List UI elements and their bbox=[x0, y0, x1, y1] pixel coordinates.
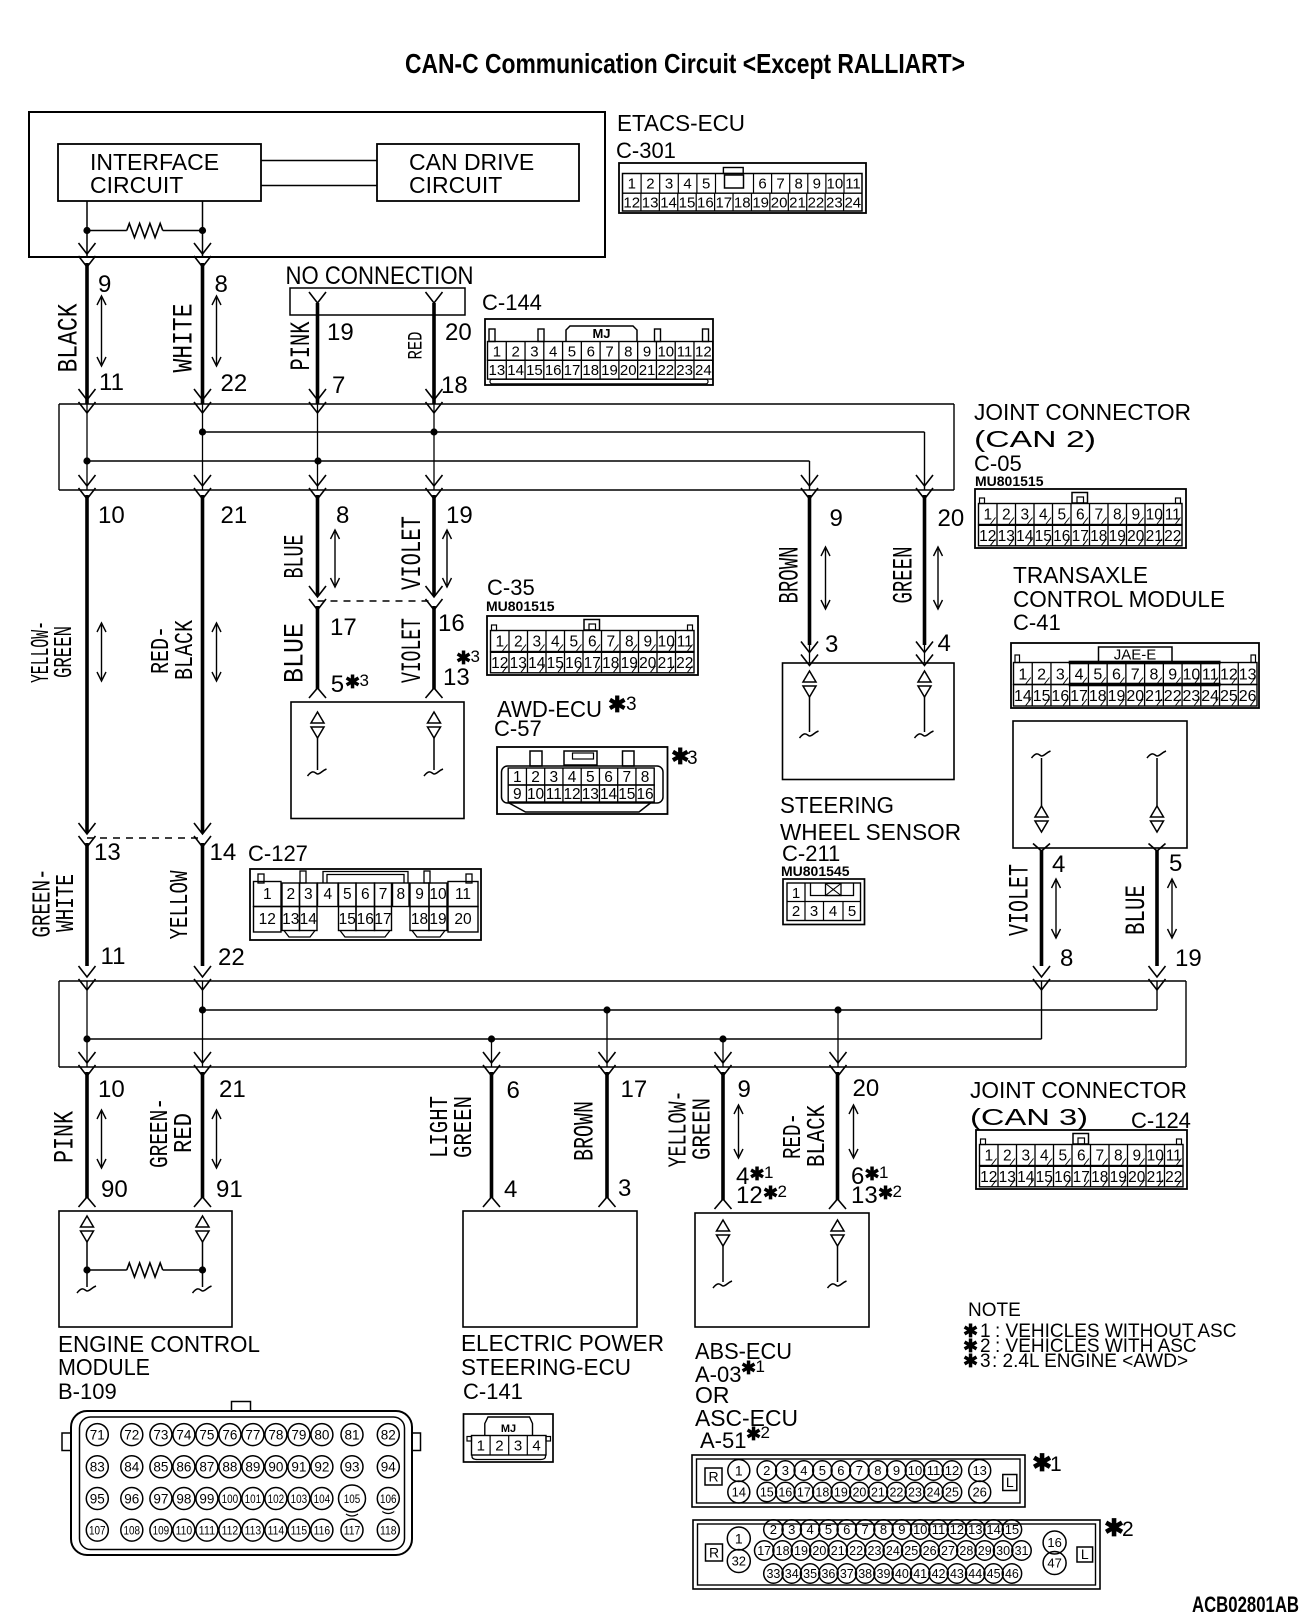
svg-text:3: 3 bbox=[810, 903, 818, 920]
svg-text:41: 41 bbox=[913, 1567, 927, 1581]
svg-text:17: 17 bbox=[374, 911, 391, 928]
svg-text:5: 5 bbox=[848, 903, 856, 920]
svg-text:C-35: C-35 bbox=[487, 575, 535, 600]
svg-text:7: 7 bbox=[623, 769, 632, 786]
svg-text:4: 4 bbox=[549, 343, 557, 360]
svg-text:14: 14 bbox=[507, 362, 524, 379]
svg-text:23: 23 bbox=[1183, 688, 1201, 705]
svg-text:12: 12 bbox=[563, 786, 580, 803]
svg-text:4: 4 bbox=[532, 1438, 540, 1455]
svg-text:92: 92 bbox=[314, 1460, 329, 1475]
svg-text:1: 1 bbox=[984, 1148, 993, 1165]
svg-text:22: 22 bbox=[808, 195, 825, 212]
svg-text:3: 3 bbox=[665, 176, 673, 193]
svg-text:6: 6 bbox=[1077, 1148, 1086, 1165]
svg-text:81: 81 bbox=[344, 1427, 359, 1442]
svg-text:25: 25 bbox=[1220, 688, 1238, 705]
svg-text:YELLOW: YELLOW bbox=[165, 870, 195, 939]
svg-text:14: 14 bbox=[1014, 688, 1032, 705]
svg-text:RED: RED bbox=[169, 1113, 199, 1153]
svg-text:12: 12 bbox=[623, 195, 640, 212]
svg-text:23: 23 bbox=[676, 362, 693, 379]
svg-text:104: 104 bbox=[314, 1492, 331, 1506]
svg-text:8: 8 bbox=[795, 176, 803, 193]
svg-text:73: 73 bbox=[153, 1427, 168, 1442]
svg-text:18: 18 bbox=[602, 655, 619, 672]
svg-text:18: 18 bbox=[815, 1486, 829, 1500]
svg-text:GREEN: GREEN bbox=[890, 547, 921, 604]
svg-text:1: 1 bbox=[263, 886, 272, 903]
svg-text:17: 17 bbox=[715, 195, 732, 212]
svg-text:WHITE: WHITE bbox=[170, 304, 201, 373]
svg-text:13: 13 bbox=[489, 362, 506, 379]
svg-text:25: 25 bbox=[904, 1544, 918, 1558]
svg-text:17: 17 bbox=[584, 655, 601, 672]
svg-text:10: 10 bbox=[913, 1522, 927, 1537]
svg-text:3: 3 bbox=[788, 1522, 795, 1537]
svg-text:20: 20 bbox=[445, 319, 472, 346]
svg-text:13: 13 bbox=[282, 911, 299, 928]
svg-text:1: 1 bbox=[477, 1438, 485, 1455]
svg-text:17: 17 bbox=[1073, 1169, 1090, 1186]
svg-text:20: 20 bbox=[639, 655, 657, 672]
svg-text:9: 9 bbox=[1132, 1148, 1141, 1165]
svg-text:14: 14 bbox=[300, 911, 318, 928]
svg-text:12: 12 bbox=[259, 911, 276, 928]
svg-text:BLUE: BLUE bbox=[281, 623, 312, 683]
svg-text:83: 83 bbox=[90, 1460, 105, 1475]
svg-text:15: 15 bbox=[1033, 688, 1051, 705]
svg-text:19: 19 bbox=[327, 319, 354, 346]
svg-text:76: 76 bbox=[222, 1427, 237, 1442]
svg-text:5: 5 bbox=[331, 671, 344, 698]
svg-text:STEERING-ECU: STEERING-ECU bbox=[461, 1354, 631, 1380]
svg-text:2: 2 bbox=[511, 343, 519, 360]
svg-text:115: 115 bbox=[291, 1523, 308, 1537]
svg-text:JOINT CONNECTOR: JOINT CONNECTOR bbox=[970, 1077, 1187, 1103]
svg-text:46: 46 bbox=[1005, 1567, 1019, 1581]
svg-text:5: 5 bbox=[1169, 850, 1182, 877]
svg-text:86: 86 bbox=[176, 1460, 191, 1475]
svg-text:19: 19 bbox=[752, 195, 769, 212]
svg-text:5: 5 bbox=[1093, 666, 1102, 683]
svg-text:11: 11 bbox=[845, 176, 861, 193]
svg-text:118: 118 bbox=[380, 1523, 397, 1537]
svg-text:19: 19 bbox=[834, 1486, 848, 1500]
svg-text:17: 17 bbox=[1070, 688, 1088, 705]
svg-text:19: 19 bbox=[429, 911, 446, 928]
svg-text:10: 10 bbox=[1183, 666, 1201, 683]
svg-text:6: 6 bbox=[1076, 507, 1085, 524]
svg-text:13: 13 bbox=[972, 1463, 986, 1478]
svg-text:2: 2 bbox=[778, 1182, 787, 1201]
svg-text:21: 21 bbox=[219, 1076, 246, 1103]
svg-text:12: 12 bbox=[1220, 666, 1238, 683]
svg-text:8: 8 bbox=[1113, 507, 1122, 524]
svg-text:91: 91 bbox=[216, 1176, 243, 1203]
svg-text:18: 18 bbox=[411, 911, 428, 928]
svg-text:103: 103 bbox=[291, 1492, 308, 1506]
svg-text:20: 20 bbox=[1128, 1169, 1146, 1186]
svg-text:4: 4 bbox=[800, 1463, 807, 1478]
svg-text:13: 13 bbox=[999, 1169, 1016, 1186]
svg-text:A-51: A-51 bbox=[700, 1428, 746, 1453]
svg-text:24: 24 bbox=[1201, 688, 1219, 705]
svg-text:20: 20 bbox=[1126, 688, 1144, 705]
svg-text:42: 42 bbox=[932, 1567, 946, 1581]
svg-text:11: 11 bbox=[932, 1522, 946, 1537]
svg-text:11: 11 bbox=[927, 1463, 941, 1478]
svg-text:4: 4 bbox=[806, 1522, 813, 1537]
svg-text:24: 24 bbox=[844, 195, 861, 212]
svg-text:1: 1 bbox=[735, 1463, 743, 1479]
svg-text:1: 1 bbox=[792, 885, 800, 902]
svg-text:79: 79 bbox=[291, 1427, 306, 1442]
svg-text:2: 2 bbox=[646, 176, 654, 193]
svg-text:90: 90 bbox=[268, 1460, 283, 1475]
svg-text:BLACK: BLACK bbox=[802, 1105, 832, 1167]
svg-text:MJ: MJ bbox=[501, 1423, 516, 1435]
svg-text:17: 17 bbox=[621, 1076, 648, 1103]
svg-text:1: 1 bbox=[495, 634, 504, 651]
svg-text:16: 16 bbox=[565, 655, 582, 672]
svg-text:95: 95 bbox=[90, 1491, 105, 1506]
svg-text:21: 21 bbox=[221, 502, 248, 529]
svg-text:VIOLET: VIOLET bbox=[1006, 864, 1037, 936]
svg-text:20: 20 bbox=[771, 195, 788, 212]
svg-text:29: 29 bbox=[978, 1544, 992, 1558]
svg-text:3: 3 bbox=[530, 343, 538, 360]
svg-text:MJ: MJ bbox=[592, 326, 610, 341]
svg-text:C-127: C-127 bbox=[248, 841, 308, 866]
svg-text:114: 114 bbox=[268, 1523, 285, 1537]
svg-text:21: 21 bbox=[658, 655, 675, 672]
svg-text:✱: ✱ bbox=[608, 692, 626, 717]
svg-text:16: 16 bbox=[1051, 688, 1069, 705]
svg-text:36: 36 bbox=[821, 1567, 835, 1581]
svg-text:19: 19 bbox=[1175, 945, 1202, 972]
svg-text:108: 108 bbox=[124, 1523, 141, 1537]
svg-text:CIRCUIT: CIRCUIT bbox=[90, 172, 183, 198]
svg-text:21: 21 bbox=[789, 195, 806, 212]
svg-text:4: 4 bbox=[504, 1176, 517, 1203]
svg-text:5: 5 bbox=[569, 634, 578, 651]
svg-text:19: 19 bbox=[601, 362, 618, 379]
svg-text:14: 14 bbox=[986, 1522, 1000, 1537]
svg-text:4: 4 bbox=[1075, 666, 1084, 683]
svg-text:BROWN: BROWN bbox=[776, 547, 807, 604]
svg-text:5: 5 bbox=[586, 769, 595, 786]
svg-text:12: 12 bbox=[695, 343, 712, 360]
svg-text:14: 14 bbox=[732, 1485, 746, 1500]
svg-text:78: 78 bbox=[268, 1427, 283, 1442]
svg-text:6: 6 bbox=[604, 769, 613, 786]
svg-text:9: 9 bbox=[898, 1522, 905, 1537]
svg-text:19: 19 bbox=[794, 1544, 808, 1558]
svg-text:9: 9 bbox=[1168, 666, 1177, 683]
svg-text:20: 20 bbox=[938, 505, 965, 532]
svg-text:21: 21 bbox=[1146, 528, 1163, 545]
svg-text:1: 1 bbox=[513, 769, 522, 786]
svg-text:47: 47 bbox=[1047, 1556, 1061, 1571]
svg-text:18: 18 bbox=[734, 195, 751, 212]
svg-text:40: 40 bbox=[895, 1567, 909, 1581]
svg-text:19: 19 bbox=[621, 655, 638, 672]
svg-text:14: 14 bbox=[1016, 528, 1034, 545]
svg-text:C-141: C-141 bbox=[463, 1379, 523, 1404]
svg-text:2: 2 bbox=[1122, 1518, 1134, 1541]
svg-text:6: 6 bbox=[587, 343, 595, 360]
svg-text:21: 21 bbox=[831, 1544, 845, 1558]
svg-text:9: 9 bbox=[893, 1463, 900, 1478]
svg-text:3: 3 bbox=[514, 1438, 522, 1455]
svg-text:8: 8 bbox=[624, 343, 632, 360]
svg-text:R: R bbox=[709, 1545, 719, 1561]
svg-text:17: 17 bbox=[797, 1486, 811, 1500]
svg-text:12: 12 bbox=[736, 1182, 763, 1209]
svg-text:26: 26 bbox=[1239, 688, 1257, 705]
svg-text:C-301: C-301 bbox=[616, 138, 676, 163]
svg-text:L: L bbox=[1006, 1474, 1014, 1490]
svg-text:39: 39 bbox=[877, 1567, 891, 1581]
svg-text:26: 26 bbox=[923, 1544, 937, 1558]
svg-text:9: 9 bbox=[98, 271, 111, 298]
svg-text:32: 32 bbox=[732, 1554, 746, 1569]
svg-text:9: 9 bbox=[738, 1076, 751, 1103]
svg-text:33: 33 bbox=[766, 1567, 780, 1581]
svg-text:96: 96 bbox=[124, 1491, 139, 1506]
svg-text:18: 18 bbox=[776, 1544, 790, 1558]
svg-text:16: 16 bbox=[697, 195, 714, 212]
svg-text:7: 7 bbox=[606, 634, 615, 651]
svg-text:4: 4 bbox=[568, 769, 577, 786]
svg-text:✱: ✱ bbox=[741, 1358, 756, 1378]
svg-text:9: 9 bbox=[1131, 507, 1140, 524]
svg-text:8: 8 bbox=[625, 634, 634, 651]
svg-text:12: 12 bbox=[491, 655, 508, 672]
svg-text:19: 19 bbox=[1110, 1169, 1127, 1186]
svg-text:3: 3 bbox=[687, 748, 698, 769]
svg-text:C-57: C-57 bbox=[494, 716, 542, 741]
svg-text:2: 2 bbox=[792, 903, 800, 920]
svg-text:4: 4 bbox=[1039, 507, 1048, 524]
svg-text:6: 6 bbox=[588, 634, 597, 651]
svg-text:4: 4 bbox=[829, 903, 837, 920]
svg-text:17: 17 bbox=[757, 1544, 771, 1558]
svg-text:75: 75 bbox=[199, 1427, 214, 1442]
svg-text:✱: ✱ bbox=[865, 1164, 880, 1184]
svg-text:JOINT CONNECTOR: JOINT CONNECTOR bbox=[974, 399, 1191, 425]
svg-text:3: 3 bbox=[626, 694, 637, 715]
svg-text:11: 11 bbox=[99, 369, 124, 396]
svg-text:5: 5 bbox=[819, 1463, 826, 1478]
svg-text:MU801515: MU801515 bbox=[486, 598, 555, 614]
svg-text:15: 15 bbox=[679, 195, 696, 212]
svg-text:30: 30 bbox=[996, 1544, 1010, 1558]
svg-text:GREEN: GREEN bbox=[688, 1098, 718, 1160]
svg-text:3: 3 bbox=[471, 647, 480, 666]
svg-text:94: 94 bbox=[381, 1460, 397, 1475]
svg-text:10: 10 bbox=[1146, 507, 1164, 524]
svg-text:13: 13 bbox=[582, 786, 599, 803]
svg-text:4: 4 bbox=[938, 630, 951, 657]
svg-text:MODULE: MODULE bbox=[58, 1354, 150, 1380]
svg-text:17: 17 bbox=[330, 614, 357, 641]
svg-text:15: 15 bbox=[547, 655, 564, 672]
svg-text:1: 1 bbox=[1050, 1453, 1062, 1476]
svg-text:✱: ✱ bbox=[763, 1183, 778, 1203]
svg-text:6: 6 bbox=[1112, 666, 1121, 683]
svg-text:8: 8 bbox=[215, 271, 228, 298]
svg-text:12: 12 bbox=[950, 1522, 964, 1537]
svg-text:7: 7 bbox=[862, 1522, 869, 1537]
svg-text:VIOLET: VIOLET bbox=[398, 516, 429, 590]
svg-text:2: 2 bbox=[893, 1182, 902, 1201]
svg-text:12: 12 bbox=[980, 1169, 997, 1186]
svg-text:ACB02801AB: ACB02801AB bbox=[1192, 1592, 1299, 1616]
svg-text:15: 15 bbox=[760, 1486, 774, 1500]
svg-text:: 2.4L ENGINE <AWD>: : 2.4L ENGINE <AWD> bbox=[992, 1351, 1188, 1372]
svg-text:43: 43 bbox=[950, 1567, 964, 1581]
svg-text:10: 10 bbox=[908, 1463, 922, 1478]
svg-text:6: 6 bbox=[758, 176, 766, 193]
svg-text:77: 77 bbox=[245, 1427, 260, 1442]
svg-text:89: 89 bbox=[245, 1460, 260, 1475]
svg-text:13: 13 bbox=[1239, 666, 1257, 683]
svg-text:BLACK: BLACK bbox=[55, 303, 86, 372]
svg-text:22: 22 bbox=[849, 1544, 863, 1558]
svg-text:45: 45 bbox=[987, 1567, 1001, 1581]
svg-text:10: 10 bbox=[657, 343, 674, 360]
svg-text:23: 23 bbox=[826, 195, 843, 212]
svg-text:93: 93 bbox=[344, 1460, 359, 1475]
svg-text:8: 8 bbox=[874, 1463, 881, 1478]
svg-text:1: 1 bbox=[628, 176, 636, 193]
svg-text:84: 84 bbox=[124, 1460, 140, 1475]
svg-text:13: 13 bbox=[510, 655, 527, 672]
svg-text:2: 2 bbox=[1003, 1148, 1012, 1165]
svg-text:44: 44 bbox=[968, 1567, 982, 1581]
svg-text:16: 16 bbox=[1047, 1535, 1061, 1550]
svg-text:15: 15 bbox=[339, 911, 356, 928]
svg-text:21: 21 bbox=[1147, 1169, 1164, 1186]
svg-text:9: 9 bbox=[643, 634, 652, 651]
svg-text:8: 8 bbox=[641, 769, 650, 786]
svg-text:11: 11 bbox=[677, 343, 693, 360]
svg-text:5: 5 bbox=[343, 886, 352, 903]
svg-text:ELECTRIC POWER: ELECTRIC POWER bbox=[461, 1330, 664, 1356]
svg-text:R: R bbox=[708, 1469, 718, 1485]
svg-text:98: 98 bbox=[176, 1491, 191, 1506]
svg-text:4: 4 bbox=[551, 634, 560, 651]
svg-text:2: 2 bbox=[495, 1438, 503, 1455]
svg-text:1: 1 bbox=[756, 1357, 765, 1376]
svg-text:10: 10 bbox=[429, 886, 447, 903]
svg-text:7: 7 bbox=[379, 886, 388, 903]
svg-text:5: 5 bbox=[702, 176, 710, 193]
svg-text:4: 4 bbox=[323, 886, 332, 903]
svg-text:19: 19 bbox=[446, 502, 473, 529]
svg-text:15: 15 bbox=[526, 362, 543, 379]
svg-text:3: 3 bbox=[532, 634, 541, 651]
svg-text:8: 8 bbox=[396, 886, 405, 903]
svg-text:6: 6 bbox=[843, 1522, 850, 1537]
svg-text:7: 7 bbox=[1095, 1148, 1104, 1165]
svg-text:90: 90 bbox=[101, 1176, 128, 1203]
svg-text:BLUE: BLUE bbox=[281, 535, 312, 579]
svg-text:(CAN 3): (CAN 3) bbox=[970, 1104, 1088, 1130]
svg-text:15: 15 bbox=[1036, 1169, 1053, 1186]
svg-text:10: 10 bbox=[98, 502, 125, 529]
svg-text:8: 8 bbox=[1150, 666, 1159, 683]
svg-text:88: 88 bbox=[222, 1460, 237, 1475]
svg-text:10: 10 bbox=[527, 786, 545, 803]
svg-text:MU801545: MU801545 bbox=[781, 863, 850, 879]
svg-text:✱: ✱ bbox=[963, 1351, 978, 1371]
svg-text:3: 3 bbox=[825, 631, 838, 658]
svg-text:7: 7 bbox=[776, 176, 784, 193]
svg-text:13: 13 bbox=[851, 1182, 878, 1209]
svg-text:11: 11 bbox=[101, 943, 126, 970]
svg-text:21: 21 bbox=[639, 362, 656, 379]
svg-text:112: 112 bbox=[222, 1523, 239, 1537]
svg-text:110: 110 bbox=[176, 1523, 193, 1537]
svg-text:31: 31 bbox=[1015, 1544, 1029, 1558]
svg-text:14: 14 bbox=[210, 839, 237, 866]
svg-text:NO CONNECTION: NO CONNECTION bbox=[286, 262, 474, 290]
svg-text:BLACK: BLACK bbox=[170, 620, 200, 680]
svg-text:18: 18 bbox=[1089, 688, 1107, 705]
svg-text:CIRCUIT: CIRCUIT bbox=[409, 172, 502, 198]
svg-text:7: 7 bbox=[1131, 666, 1140, 683]
svg-text:22: 22 bbox=[657, 362, 674, 379]
svg-text:22: 22 bbox=[889, 1486, 903, 1500]
svg-text:3: 3 bbox=[304, 886, 313, 903]
svg-text:4: 4 bbox=[1052, 851, 1065, 878]
svg-text:26: 26 bbox=[972, 1485, 986, 1500]
svg-text:82: 82 bbox=[381, 1427, 396, 1442]
svg-text:18: 18 bbox=[1091, 1169, 1108, 1186]
svg-text:3: 3 bbox=[1020, 507, 1029, 524]
svg-text:CAN-C Communication Circuit <E: CAN-C Communication Circuit <Except RALL… bbox=[405, 48, 965, 79]
svg-text:6: 6 bbox=[507, 1077, 520, 1104]
svg-text:16: 16 bbox=[778, 1486, 792, 1500]
svg-text:TRANSAXLE: TRANSAXLE bbox=[1013, 562, 1148, 588]
svg-text:BLUE: BLUE bbox=[1122, 885, 1153, 935]
svg-text:71: 71 bbox=[90, 1427, 105, 1442]
svg-text:21: 21 bbox=[1145, 688, 1163, 705]
svg-text:21: 21 bbox=[871, 1486, 885, 1500]
svg-text:8: 8 bbox=[1114, 1148, 1123, 1165]
svg-text:2: 2 bbox=[763, 1463, 770, 1478]
svg-text:7: 7 bbox=[1094, 507, 1103, 524]
svg-text:B-109: B-109 bbox=[58, 1379, 117, 1404]
svg-text:10: 10 bbox=[827, 176, 844, 193]
svg-text:14: 14 bbox=[528, 655, 546, 672]
svg-text:24: 24 bbox=[927, 1486, 941, 1500]
svg-text:19: 19 bbox=[1109, 528, 1126, 545]
svg-text:24: 24 bbox=[695, 362, 712, 379]
svg-text:8: 8 bbox=[880, 1522, 887, 1537]
svg-text:20: 20 bbox=[852, 1486, 866, 1500]
svg-text:8: 8 bbox=[1060, 945, 1073, 972]
svg-text:✱: ✱ bbox=[878, 1183, 893, 1203]
svg-text:5: 5 bbox=[1057, 507, 1066, 524]
svg-text:106: 106 bbox=[380, 1492, 397, 1506]
svg-text:5: 5 bbox=[568, 343, 576, 360]
svg-text:18: 18 bbox=[582, 362, 599, 379]
svg-text:16: 16 bbox=[636, 786, 653, 803]
